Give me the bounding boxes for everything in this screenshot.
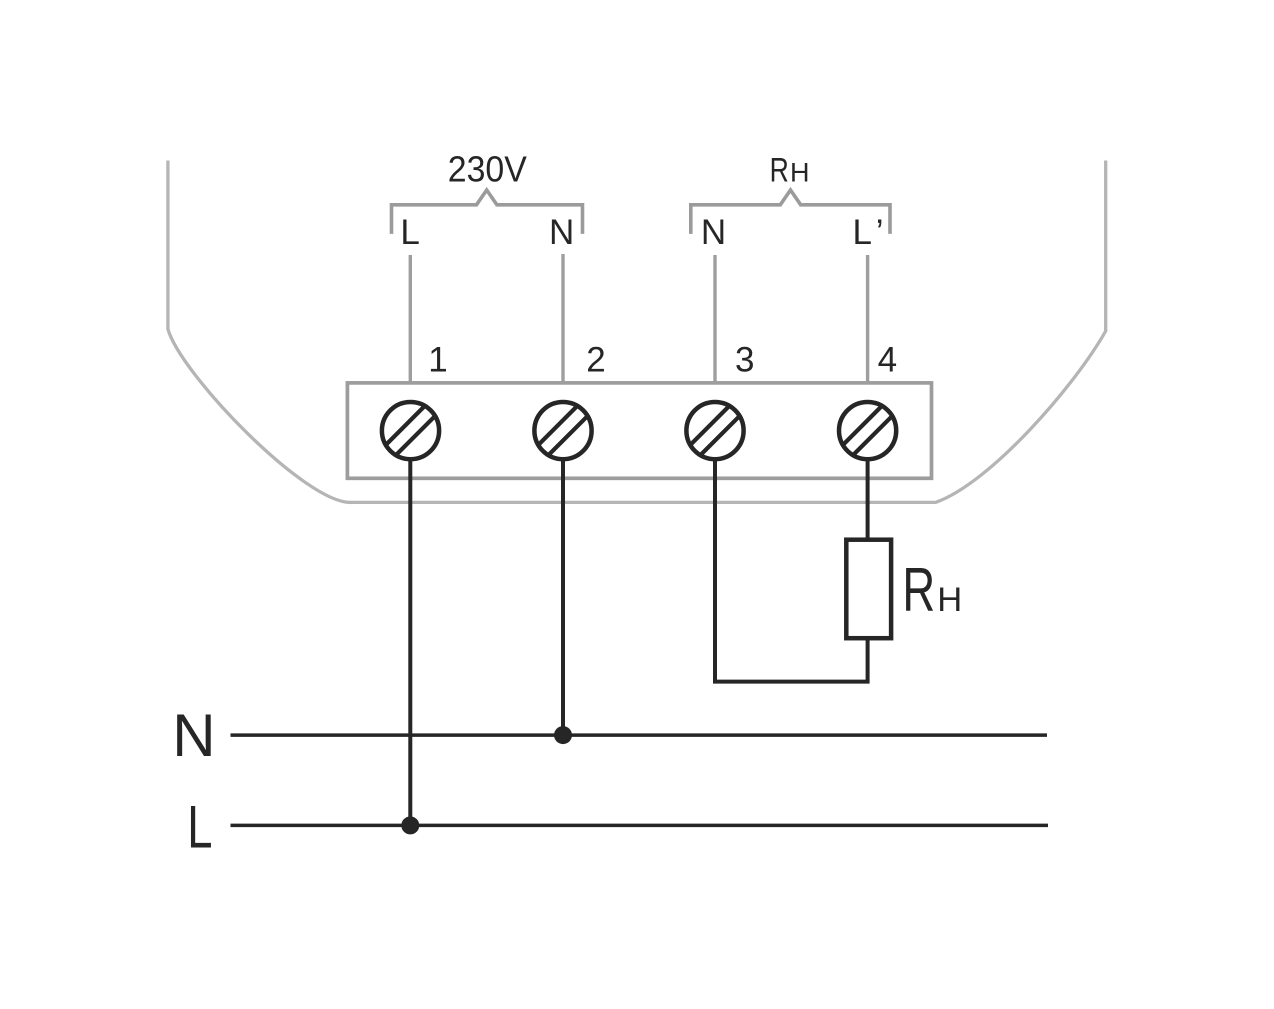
svg-text:230V: 230V — [448, 148, 528, 189]
svg-text:N: N — [549, 213, 574, 252]
svg-text:4: 4 — [878, 340, 897, 379]
svg-text:R: R — [902, 556, 935, 625]
svg-text:2: 2 — [586, 340, 605, 379]
svg-text:3: 3 — [735, 340, 754, 379]
svg-text:L: L — [400, 213, 419, 252]
svg-text:N: N — [172, 702, 215, 769]
svg-text:L’: L’ — [853, 213, 884, 252]
svg-text:N: N — [701, 213, 726, 252]
svg-text:H: H — [790, 157, 810, 187]
svg-text:H: H — [937, 581, 962, 619]
svg-text:R: R — [770, 151, 789, 189]
svg-text:L: L — [187, 793, 212, 861]
svg-text:1: 1 — [428, 340, 447, 379]
